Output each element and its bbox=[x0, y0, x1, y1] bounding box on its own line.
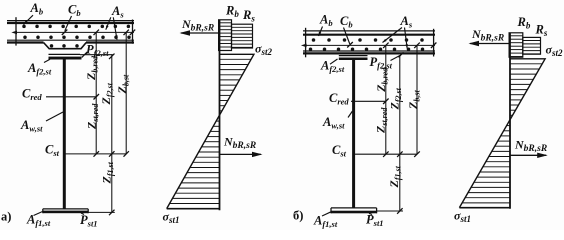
svg-text:а): а) bbox=[1, 210, 11, 224]
svg-text:б): б) bbox=[293, 209, 303, 223]
